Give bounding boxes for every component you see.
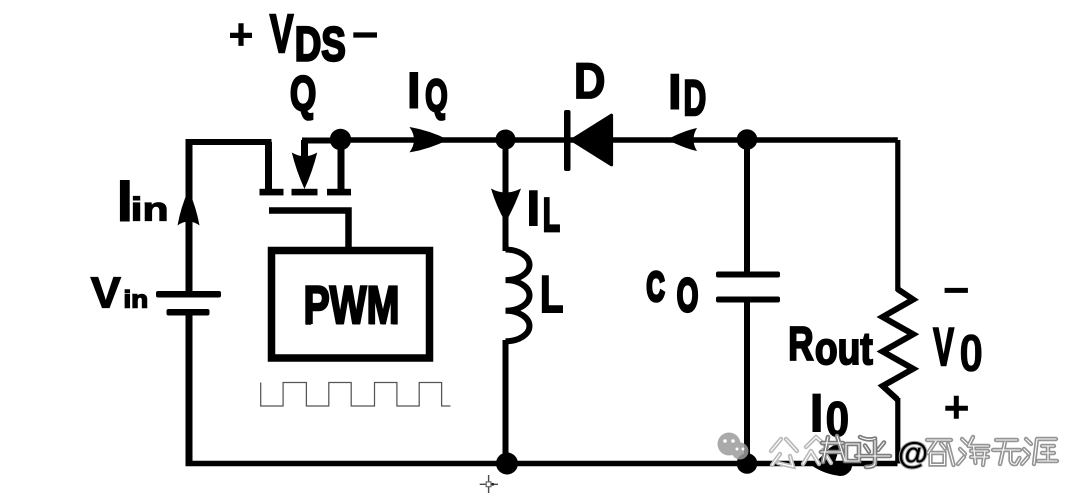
- label D (diode designator): [574, 52, 605, 109]
- junction node: L bottom (dot): [496, 453, 518, 475]
- watermark wechat icon: [718, 433, 749, 460]
- svg-text:V: V: [91, 269, 122, 317]
- label Vin (V): [91, 269, 122, 317]
- svg-text:O: O: [677, 270, 699, 322]
- label IL (I): [525, 179, 542, 237]
- label ID (I): [666, 62, 683, 120]
- label IQ (Q subscript): [425, 70, 447, 120]
- label + (VO plus): [945, 396, 968, 419]
- cursor crosshair artifact: [480, 475, 498, 493]
- svg-text:out: out: [815, 322, 873, 373]
- label ID (D subscript): [684, 69, 707, 125]
- current arrow ID (left): [667, 128, 697, 151]
- svg-text:0: 0: [959, 325, 983, 383]
- diode D: [564, 110, 612, 171]
- label Rout (out): [815, 322, 873, 373]
- Q gate wire to PWM: [269, 211, 349, 253]
- PWM block U1: [272, 251, 430, 359]
- transistor Q (MOSFET): [260, 140, 352, 195]
- current arrow IQ (right): [410, 127, 449, 152]
- label Iin (in subscript): [131, 191, 169, 229]
- svg-text:PWM: PWM: [304, 275, 400, 334]
- label Iin (I): [115, 167, 134, 235]
- label VO (O subscript): [959, 325, 983, 383]
- label minus (VO minus): [945, 288, 968, 293]
- wire inductor branch lower: [503, 340, 509, 464]
- wire right rail upper (to Rout top): [895, 140, 900, 291]
- wire left rail upper (battery + up): [186, 139, 193, 292]
- current arrow IL (down): [491, 189, 521, 223]
- svg-text:R: R: [788, 317, 813, 370]
- label IQ (I): [405, 61, 422, 120]
- label VDS (DS subscript): [295, 18, 346, 72]
- svg-text:in: in: [124, 287, 149, 313]
- svg-text:I: I: [525, 179, 542, 237]
- svg-text:DS: DS: [295, 18, 346, 72]
- wire capacitor branch lower: [744, 301, 750, 464]
- svg-text:@: @: [898, 436, 928, 471]
- svg-text:I: I: [405, 61, 422, 120]
- capacitor CO plates: [716, 272, 780, 303]
- inductor L coil: [506, 250, 530, 342]
- wire bottom rail: [186, 461, 898, 467]
- label CO (C): [647, 264, 665, 310]
- wire top rail (node: Q source / L / D / CO): [340, 137, 898, 143]
- label L (inductor designator): [540, 265, 563, 323]
- junction node: CO top (dot): [737, 129, 758, 150]
- label + (VDS plus): [230, 23, 252, 46]
- label Io (O subscript): [826, 392, 850, 447]
- svg-text:V: V: [933, 319, 954, 378]
- label Io (I): [809, 382, 825, 444]
- wire top-left horizontal (Vin+ to Q drain): [186, 139, 272, 145]
- junction node: Q source / top (dot): [330, 129, 351, 150]
- label PWM (block text): [304, 275, 400, 334]
- svg-text:D: D: [574, 52, 605, 109]
- label Rout (R): [788, 317, 813, 370]
- svg-text:D: D: [684, 69, 707, 125]
- current arrow Io (left, tilted): [813, 465, 853, 476]
- wire capacitor branch upper: [744, 140, 750, 272]
- svg-text:I: I: [809, 382, 825, 444]
- svg-text:C: C: [647, 264, 665, 310]
- label IL (L subscript): [543, 190, 560, 242]
- wire right rail lower (Rout bottom to bottom rail): [895, 398, 900, 464]
- svg-text:L: L: [543, 190, 560, 242]
- label VO (V): [933, 319, 954, 378]
- svg-text:I: I: [666, 62, 683, 120]
- wire inductor branch upper: [503, 140, 509, 251]
- label Q (transistor designator): [290, 66, 316, 121]
- label CO (O subscript): [677, 270, 699, 322]
- svg-text:Q: Q: [425, 70, 447, 120]
- junction node: CO bottom (dot): [737, 453, 758, 474]
- label VDS (V): [270, 4, 294, 64]
- wire left rail lower (battery - down to bottom): [186, 312, 193, 466]
- svg-text:Q: Q: [290, 66, 316, 121]
- junction node: L top (dot): [496, 130, 516, 150]
- label Vin (in subscript): [124, 287, 149, 313]
- current arrow Iin (up): [178, 190, 200, 226]
- label minus (VDS minus): [353, 32, 377, 37]
- svg-text:V: V: [270, 4, 294, 64]
- resistor Rout zigzag: [883, 289, 914, 400]
- battery Vin (source): [156, 291, 221, 316]
- svg-text:L: L: [540, 265, 563, 323]
- PWM output square wave: [261, 383, 451, 407]
- svg-text:in: in: [131, 191, 169, 229]
